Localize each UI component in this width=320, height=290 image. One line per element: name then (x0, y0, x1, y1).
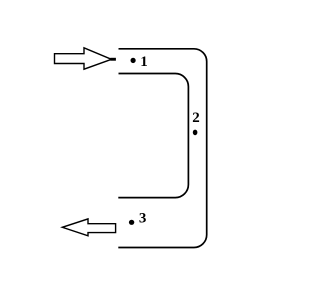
svg-text:3: 3 (139, 210, 147, 226)
inlet arrow (pointing right) (55, 48, 112, 69)
node 3 dot (129, 220, 134, 225)
duct outer wall (118, 49, 206, 248)
outlet arrow (pointing left) (62, 219, 115, 236)
svg-text:1: 1 (140, 54, 148, 70)
duct inner wall (118, 74, 188, 198)
node 2 dot (193, 130, 198, 136)
svg-text:2: 2 (192, 110, 200, 126)
inlet arrow tip dash (110, 58, 116, 61)
node 1 dot (131, 58, 136, 63)
